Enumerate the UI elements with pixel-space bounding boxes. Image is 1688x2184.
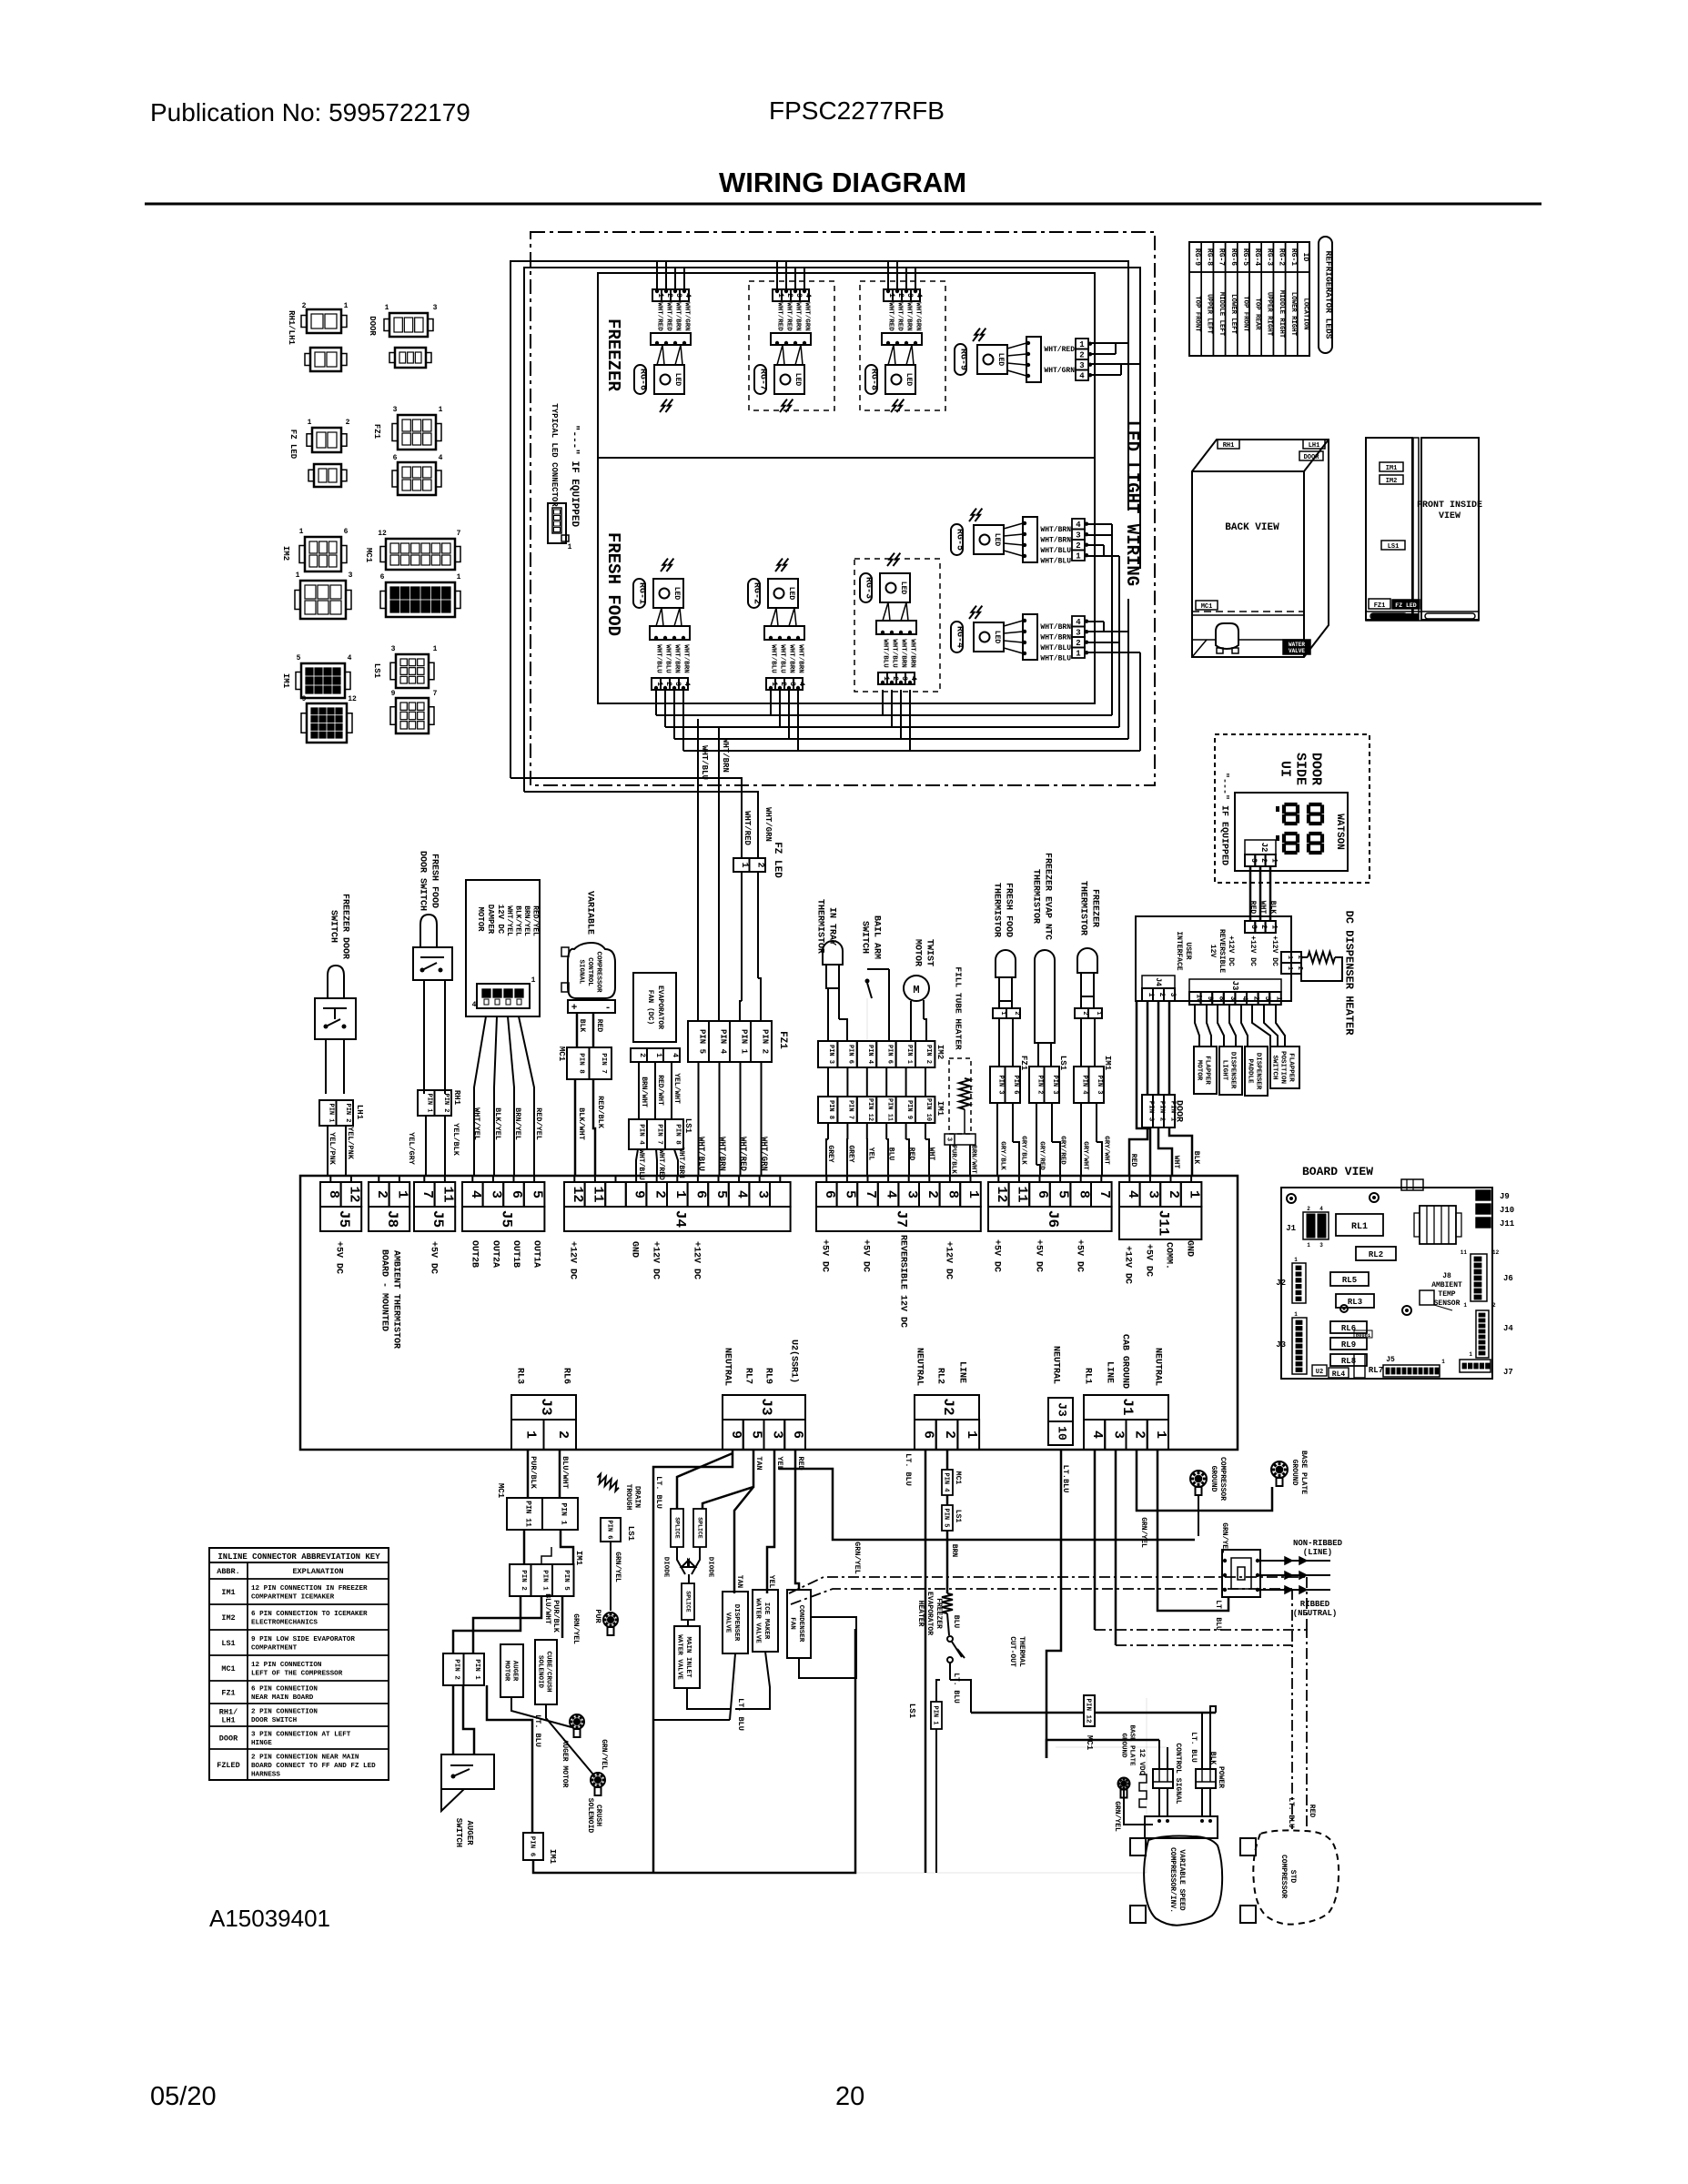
svg-text:REVERSIBLE 12V DC: REVERSIBLE 12V DC <box>897 1235 907 1328</box>
svg-text:DOOR SWITCH: DOOR SWITCH <box>417 851 427 911</box>
svg-text:1: 1 <box>1294 1257 1298 1263</box>
front inside view left cabinet <box>1366 438 1412 620</box>
svg-text:WHT/RED: WHT/RED <box>664 302 672 331</box>
svg-text:3: 3 <box>1319 1242 1323 1249</box>
inline connector FZ LED receptacle <box>314 464 341 487</box>
svg-text:TOP FRONT: TOP FRONT <box>1241 296 1248 332</box>
svg-text:8: 8 <box>326 1190 341 1198</box>
svg-text:RED: RED <box>1129 1154 1137 1168</box>
evaporator fan connector cells 2 1 4 <box>631 1048 647 1062</box>
svg-text:+5V DC: +5V DC <box>1033 1239 1043 1272</box>
svg-text:LS1: LS1 <box>683 1118 692 1134</box>
wire GRN/YEL IM1 <box>561 1596 564 1638</box>
svg-text:LINE: LINE <box>956 1361 966 1383</box>
LED connector RG-4 harness bar <box>1023 614 1037 660</box>
svg-text:1: 1 <box>439 406 443 414</box>
svg-text:BASE PLATE: BASE PLATE <box>1127 1724 1135 1766</box>
valve bottom wires LT BLU <box>653 1653 735 1720</box>
svg-text:MOTOR: MOTOR <box>1195 1060 1202 1081</box>
svg-text:RL4: RL4 <box>1332 1370 1346 1379</box>
wire PIN1 down <box>935 1729 937 1873</box>
svg-text:BOARD VIEW: BOARD VIEW <box>1302 1165 1373 1178</box>
svg-text:BOARD - MOUNTED: BOARD - MOUNTED <box>379 1249 389 1331</box>
svg-text:2: 2 <box>652 1190 667 1198</box>
svg-text:J5: J5 <box>336 1210 352 1228</box>
svg-text:3: 3 <box>904 1190 919 1198</box>
svg-text:PIN 8: PIN 8 <box>673 1124 681 1145</box>
svg-text:GRN/YEL: GRN/YEL <box>613 1552 622 1582</box>
main board outline <box>300 1176 1238 1450</box>
connector J8 cells 2 1 <box>369 1182 389 1207</box>
svg-text:J9: J9 <box>1500 1192 1510 1201</box>
svg-text:LS1: LS1 <box>1058 1056 1067 1071</box>
svg-text:2: 2 <box>346 419 350 427</box>
svg-text:DRAIN: DRAIN <box>633 1486 642 1508</box>
wires in tray thermistor to IM2 <box>827 988 829 1041</box>
svg-text:COMPARTMENT: COMPARTMENT <box>251 1645 298 1653</box>
lightning mark RG-4 <box>969 606 976 619</box>
svg-text:RG-6: RG-6 <box>1229 248 1238 266</box>
connector LS1 PIN 6 <box>601 1518 621 1542</box>
svg-text:WHT/BLU: WHT/BLU <box>1040 644 1071 652</box>
svg-text:AUGER: AUGER <box>510 1661 518 1682</box>
svg-text:WHT/BRN: WHT/BRN <box>787 644 794 673</box>
svg-text:J11: J11 <box>1500 1219 1515 1228</box>
svg-text:(LINE): (LINE) <box>1303 1548 1332 1557</box>
label FZ LED on front view <box>1392 600 1420 609</box>
pcb connectors J9 J10 J11 right <box>1476 1190 1491 1200</box>
svg-text:12: 12 <box>1492 1249 1500 1256</box>
svg-text:BRN/WHT: BRN/WHT <box>640 1077 648 1107</box>
svg-text:5: 5 <box>843 1190 858 1198</box>
svg-text:PIN 1: PIN 1 <box>931 1705 938 1724</box>
svg-text:4: 4 <box>797 682 805 686</box>
svg-text:FZ1: FZ1 <box>1374 602 1386 610</box>
svg-text:+5V DC: +5V DC <box>428 1241 438 1274</box>
label pill RG-7 <box>754 365 766 394</box>
inline connector FZ LED plug <box>312 428 341 452</box>
svg-text:FPSC2277RFB: FPSC2277RFB <box>769 96 945 125</box>
svg-text:2: 2 <box>779 682 787 686</box>
svg-text:12: 12 <box>347 1186 362 1202</box>
connector J6 cells <box>988 1182 1009 1207</box>
svg-text:WHT/BLU: WHT/BLU <box>700 745 709 780</box>
control signal connector <box>1153 1769 1173 1788</box>
svg-text:PIN 3: PIN 3 <box>827 1045 834 1064</box>
svg-text:1: 1 <box>1076 552 1081 561</box>
svg-text:WHT/BRN: WHT/BRN <box>673 302 681 331</box>
svg-text:WHT/BRN: WHT/BRN <box>796 644 804 673</box>
label WATER VALVE on back view <box>1283 640 1310 654</box>
svg-text:PIN 4: PIN 4 <box>718 1029 727 1055</box>
label LS1 on front view <box>1381 541 1405 550</box>
svg-text:12V: 12V <box>1208 945 1217 958</box>
svg-text:GREY: GREY <box>846 1145 854 1162</box>
svg-text:FILL TUBE HEATER: FILL TUBE HEATER <box>954 966 964 1050</box>
wires FZ1 to board J4 <box>698 1062 700 1176</box>
svg-text:-: - <box>605 1003 612 1014</box>
wire RED J1 down <box>1094 1450 1097 1630</box>
back view compartment divider <box>1192 611 1304 612</box>
wires FZ1 to board J6 <box>996 1103 998 1176</box>
component box DISPENSER LIGHT <box>1219 1046 1242 1095</box>
svg-text:DIODE: DIODE <box>662 1557 669 1578</box>
svg-text:LED: LED <box>673 373 682 387</box>
connector FZ1 pin strip <box>688 1021 709 1062</box>
svg-text:LOWER LEFT: LOWER LEFT <box>1229 294 1237 334</box>
svg-text:4: 4 <box>804 293 812 298</box>
connector pins 2 1 auger <box>443 1653 464 1685</box>
svg-text:1: 1 <box>1079 340 1085 349</box>
svg-text:IN TRAY: IN TRAY <box>826 907 836 945</box>
svg-text:RG-2: RG-2 <box>1278 248 1286 266</box>
wires user interface J4 to DOOR pins <box>1147 1001 1149 1095</box>
svg-text:PIN 1: PIN 1 <box>905 1045 913 1064</box>
svg-text:RG-4: RG-4 <box>1253 248 1261 266</box>
svg-text:20: 20 <box>835 2082 864 2111</box>
connector J2 bottom <box>915 1395 979 1420</box>
svg-text:REFRIGERATOR LEDS: REFRIGERATOR LEDS <box>1324 251 1334 339</box>
svg-text:RG-3: RG-3 <box>1265 248 1273 266</box>
svg-text:FREEZER EVAP NTC: FREEZER EVAP NTC <box>1042 853 1052 940</box>
connector RH1 pins <box>418 1090 435 1116</box>
svg-text:DOOR: DOOR <box>368 316 377 336</box>
freezer evaporator heater resistor <box>942 1593 953 1613</box>
svg-text:FRESH FOOD: FRESH FOOD <box>429 854 439 908</box>
svg-text:FAN (DC): FAN (DC) <box>646 990 654 1025</box>
svg-text:RL7: RL7 <box>743 1368 753 1384</box>
svg-text:4: 4 <box>1319 1206 1323 1212</box>
svg-text:FAN: FAN <box>788 1617 795 1630</box>
LED connector RG-3 harness bar <box>876 621 916 634</box>
connector PIN 6 IM1 bottom <box>523 1833 543 1860</box>
svg-text:VIEW: VIEW <box>1439 511 1461 521</box>
svg-text:LED LIGHT WIRING: LED LIGHT WIRING <box>1122 420 1142 586</box>
svg-text:1: 1 <box>522 1431 538 1439</box>
svg-text:DOOR: DOOR <box>1309 753 1324 785</box>
svg-text:RED: RED <box>1308 1805 1316 1818</box>
lightning mark RG-8 <box>891 399 898 412</box>
connector DOOR pins <box>1142 1095 1153 1127</box>
svg-text:+5V DC: +5V DC <box>819 1239 829 1272</box>
svg-text:RED/BLK: RED/BLK <box>596 1096 605 1129</box>
svg-text:BRN/YEL: BRN/YEL <box>522 905 531 936</box>
svg-text:HINGE: HINGE <box>251 1740 272 1747</box>
top wire bus upper <box>510 261 1128 778</box>
svg-text:RG-9: RG-9 <box>957 349 967 370</box>
LED connector RG-5 pin cells <box>1072 519 1085 530</box>
svg-text:LED: LED <box>905 373 913 387</box>
svg-text:2: 2 <box>896 293 905 298</box>
svg-text:2: 2 <box>1307 1206 1310 1212</box>
label LH1 on back view <box>1303 440 1325 449</box>
wire RG-5 RG-4 feeders <box>1087 523 1112 525</box>
lightning mark RG-9 <box>973 329 980 341</box>
svg-text:COMM.: COMM. <box>1163 1242 1173 1269</box>
svg-text:3: 3 <box>1146 1190 1161 1198</box>
wire BRN from J2 cell 2 through PIN 4 <box>946 1450 949 1470</box>
svg-text:J3: J3 <box>758 1398 774 1415</box>
svg-text:RL5: RL5 <box>1342 1276 1357 1285</box>
svg-text:PIN 2: PIN 2 <box>453 1659 460 1680</box>
svg-text:2: 2 <box>555 1431 571 1439</box>
svg-text:WHT/BLU: WHT/BLU <box>696 1137 705 1171</box>
svg-text:RED/YEL: RED/YEL <box>534 1107 543 1140</box>
svg-text:PIN 3: PIN 3 <box>1096 1075 1103 1094</box>
svg-text:OUT2B: OUT2B <box>470 1240 480 1268</box>
svg-text:1: 1 <box>1463 1302 1467 1309</box>
svg-text:PIN 12: PIN 12 <box>866 1098 874 1121</box>
svg-text:GRY/WHT: GRY/WHT <box>1081 1141 1088 1170</box>
svg-text:WHT/BRN: WHT/BRN <box>905 302 912 331</box>
svg-text:THERMISTOR: THERMISTOR <box>1077 881 1087 935</box>
wire bus to RG-9 <box>1090 342 1128 344</box>
svg-text:WHT: WHT <box>927 1148 935 1161</box>
svg-text:12V DC: 12V DC <box>496 905 505 935</box>
svg-text:STD: STD <box>1289 1870 1297 1884</box>
connector PIN 12 MC1 <box>1084 1695 1095 1726</box>
svg-text:TAN: TAN <box>735 1575 743 1589</box>
main inlet water valve box <box>674 1626 700 1688</box>
svg-text:J3: J3 <box>538 1398 554 1415</box>
svg-text:REVERSIBLE: REVERSIBLE <box>1218 929 1226 973</box>
svg-text:LT. BLU: LT. BLU <box>904 1453 913 1486</box>
title rule <box>145 203 1541 206</box>
wires DOOR pins to board J11 <box>1129 1127 1147 1176</box>
base plate ground lug <box>1271 1461 1288 1478</box>
svg-text:WHT/BRN: WHT/BRN <box>1040 526 1071 534</box>
svg-text:GRN/YEL: GRN/YEL <box>571 1613 580 1644</box>
svg-text:J5: J5 <box>498 1210 514 1228</box>
lightning mark RG-7 <box>780 399 787 412</box>
svg-text:3: 3 <box>673 682 682 686</box>
svg-text:FLAPPER: FLAPPER <box>1287 1053 1294 1082</box>
svg-text:LT. BLU: LT. BLU <box>1287 1797 1295 1828</box>
svg-text:RH1: RH1 <box>1223 442 1235 450</box>
user interface input cells 3 2 1 <box>1245 921 1255 933</box>
svg-text:RG-1: RG-1 <box>636 582 646 604</box>
svg-text:PIN 6: PIN 6 <box>528 1836 535 1857</box>
svg-text:LH1: LH1 <box>1309 442 1320 450</box>
damper motor connector <box>477 984 530 1008</box>
LED connector RG-1 pin strip <box>652 678 661 690</box>
wires to auger switch <box>452 1685 455 1754</box>
svg-text:12 VDC: 12 VDC <box>1137 1749 1146 1775</box>
svg-text:U2(SSR1): U2(SSR1) <box>788 1340 799 1383</box>
wires control signal to MC1 <box>576 1013 579 1047</box>
inline connector IM1 plug <box>301 663 345 698</box>
svg-text:1: 1 <box>433 645 438 653</box>
svg-text:7: 7 <box>1097 1190 1112 1198</box>
svg-text:WHT/RED: WHT/RED <box>775 302 783 331</box>
connector IM1 pins 2 1 5 <box>510 1564 531 1596</box>
svg-text:LH1: LH1 <box>221 1716 235 1725</box>
svg-text:NEUTRAL: NEUTRAL <box>914 1348 924 1386</box>
svg-text:2: 2 <box>302 302 307 310</box>
ice maker water valve box <box>753 1590 778 1652</box>
svg-text:FLAPPER: FLAPPER <box>1203 1056 1210 1085</box>
svg-text:IM1: IM1 <box>1386 465 1398 472</box>
pcb relay RL1 <box>1336 1214 1383 1236</box>
connector J11 cells <box>1119 1182 1140 1207</box>
svg-text:WHT/GRN: WHT/GRN <box>803 302 810 331</box>
svg-text:WATER: WATER <box>1289 642 1305 648</box>
svg-text:9: 9 <box>391 690 396 698</box>
svg-text:J4: J4 <box>1503 1324 1513 1333</box>
svg-text:RG-5: RG-5 <box>954 529 964 551</box>
svg-text:WHT/GRN: WHT/GRN <box>763 807 773 842</box>
svg-text:6 PIN CONNECTION TO ICEMAKER: 6 PIN CONNECTION TO ICEMAKER <box>251 1611 368 1618</box>
lightning mark RG-3 <box>887 553 895 566</box>
svg-text:4: 4 <box>439 454 443 462</box>
pcb connector J2 <box>1292 1263 1306 1303</box>
svg-text:SIDE: SIDE <box>1293 753 1309 785</box>
svg-text:RG-8: RG-8 <box>868 369 878 390</box>
svg-text:WHT/BRN: WHT/BRN <box>899 639 906 668</box>
pcb relay RL9 <box>1330 1338 1367 1350</box>
svg-text:6: 6 <box>1035 1190 1050 1198</box>
fresh food thermistor cells 1 2 <box>993 1008 1006 1018</box>
svg-text:3: 3 <box>393 406 398 414</box>
wires LH1 to board J5 <box>327 1126 329 1176</box>
svg-text:PIN 3: PIN 3 <box>1051 1075 1058 1094</box>
svg-text:4: 4 <box>909 676 917 681</box>
svg-text:WHT/BRN: WHT/BRN <box>672 644 680 673</box>
inverter box <box>1145 1816 1218 1838</box>
svg-text:J4: J4 <box>1154 977 1162 986</box>
svg-text:3: 3 <box>1249 925 1258 929</box>
svg-text:4: 4 <box>682 682 691 686</box>
svg-text:PIN 3: PIN 3 <box>997 1075 1005 1094</box>
svg-text:WHT/RED: WHT/RED <box>655 302 662 331</box>
label FZ1 on front view <box>1369 599 1390 609</box>
DC dispenser heater connector <box>1281 952 1291 963</box>
inline connector FZ1 receptacle <box>398 462 436 495</box>
svg-text:2: 2 <box>638 1053 646 1057</box>
connector J1 bottom <box>1084 1395 1168 1420</box>
svg-text:J6: J6 <box>1503 1274 1513 1283</box>
label DOOR on back view <box>1299 451 1323 460</box>
svg-text:LOCATION: LOCATION <box>1301 298 1309 329</box>
svg-text:HARNESS: HARNESS <box>251 1771 280 1778</box>
connector LS1 PIN 5 <box>946 1495 949 1505</box>
svg-text:TOP REAR: TOP REAR <box>1253 298 1260 330</box>
svg-text:RG-3: RG-3 <box>863 577 873 599</box>
pcb relay RL6 <box>1330 1321 1367 1333</box>
svg-text:10: 10 <box>1055 1426 1068 1441</box>
svg-text:3: 3 <box>1079 361 1084 370</box>
svg-text:PIN 11: PIN 11 <box>885 1098 893 1121</box>
svg-text:2 PIN CONNECTION: 2 PIN CONNECTION <box>251 1709 318 1716</box>
svg-text:+12V DC: +12V DC <box>650 1241 660 1279</box>
svg-text:OUT1A: OUT1A <box>531 1240 541 1268</box>
svg-text:FREEZER: FREEZER <box>603 318 623 391</box>
svg-text:2: 2 <box>891 676 899 681</box>
svg-text:EVAPORATOR: EVAPORATOR <box>656 986 664 1029</box>
svg-text:12: 12 <box>348 695 357 703</box>
svg-text:PIN 12: PIN 12 <box>1084 1698 1091 1724</box>
svg-text:LED: LED <box>993 631 1001 644</box>
svg-text:11: 11 <box>1461 1249 1468 1256</box>
svg-text:RL1: RL1 <box>1082 1368 1092 1384</box>
LED module RG-9 <box>977 345 1007 374</box>
svg-text:RL1: RL1 <box>1351 1222 1368 1232</box>
wires evap fan to LS1 <box>638 1062 640 1119</box>
svg-text:1: 1 <box>1187 1190 1202 1198</box>
svg-text:CONTROL SIGNAL: CONTROL SIGNAL <box>1174 1743 1182 1804</box>
svg-text:THERMISTOR: THERMISTOR <box>991 883 1001 937</box>
svg-text:BRN: BRN <box>950 1544 958 1558</box>
svg-text:YEL: YEL <box>867 1148 875 1161</box>
wire LT BLU from J3 cell 9 <box>653 1450 733 1873</box>
svg-text:9: 9 <box>632 1190 647 1198</box>
svg-text:RED: RED <box>907 1148 915 1161</box>
wires IM1 to board J7 <box>827 1123 829 1139</box>
svg-text:WHT/BLU: WHT/BLU <box>654 644 662 673</box>
svg-text:RL2: RL2 <box>1369 1250 1383 1259</box>
wires fresh food door switch to RH1 <box>423 980 425 1094</box>
wire long drop WHT/BLU <box>697 719 699 1021</box>
svg-text:2: 2 <box>1076 541 1080 551</box>
wire PUR/BLK to auger connector <box>453 1596 521 1653</box>
svg-text:LED: LED <box>993 533 1001 547</box>
wire long drop WHT/BRN <box>718 728 720 1021</box>
connector IM1 pins 4 3 <box>1074 1067 1089 1103</box>
svg-text:PIN 8: PIN 8 <box>578 1053 585 1074</box>
pcb connector J4 right <box>1476 1310 1489 1358</box>
DC dispenser heater resistor <box>1308 952 1335 963</box>
svg-text:RL2: RL2 <box>935 1368 945 1384</box>
svg-text:LED: LED <box>996 353 1005 367</box>
dispenser valve box <box>723 1592 748 1653</box>
wire GRN/YEL long run <box>779 1469 1195 1540</box>
svg-text:BLK/YEL: BLK/YEL <box>514 905 522 936</box>
svg-text:YEL/PNK: YEL/PNK <box>328 1132 337 1166</box>
svg-text:FREEZER: FREEZER <box>1089 889 1099 927</box>
front inside view center mullion <box>1413 438 1419 620</box>
svg-text:MOTOR: MOTOR <box>502 1661 510 1682</box>
svg-text:J2: J2 <box>1276 1279 1286 1288</box>
connector LS1 PIN 1 bottom <box>936 1680 940 1702</box>
svg-text:YEL/GRY: YEL/GRY <box>407 1132 416 1166</box>
svg-text:POWER: POWER <box>1217 1766 1225 1788</box>
wires LS1 to board J4 <box>636 1149 638 1176</box>
svg-text:PIN 11: PIN 11 <box>524 1501 532 1527</box>
connector J3 second <box>723 1395 805 1420</box>
svg-text:BLK/YEL: BLK/YEL <box>493 1107 502 1140</box>
svg-text:6: 6 <box>822 1190 837 1198</box>
svg-text:COMPARTMENT ICEMAKER: COMPARTMENT ICEMAKER <box>251 1594 335 1602</box>
terminal block arrows non-ribbed <box>1260 1560 1330 1562</box>
svg-text:WATER VALVE: WATER VALVE <box>675 1634 682 1680</box>
LED connector RG-7 pin strip <box>773 289 782 301</box>
svg-text:OUT1B: OUT1B <box>510 1240 521 1268</box>
dash-dot wire RED to std compressor <box>1095 1630 1307 1829</box>
svg-text:DISPENSER: DISPENSER <box>1228 1052 1236 1089</box>
wire YEL to ice maker valve <box>767 1450 774 1593</box>
svg-text:NEUTRAL: NEUTRAL <box>722 1348 732 1386</box>
svg-text:PIN 1: PIN 1 <box>426 1093 433 1112</box>
dashed outline RG-3 <box>854 559 940 692</box>
svg-text:12: 12 <box>378 530 387 538</box>
svg-text:PIN 1: PIN 1 <box>541 1570 549 1591</box>
svg-text:5: 5 <box>1056 1190 1071 1198</box>
svg-text:IM1: IM1 <box>221 1588 235 1597</box>
svg-text:+5V DC: +5V DC <box>333 1241 343 1274</box>
svg-text:TWIST: TWIST <box>924 939 934 966</box>
svg-text:3: 3 <box>674 293 682 298</box>
front inside view base rail <box>1366 612 1479 621</box>
